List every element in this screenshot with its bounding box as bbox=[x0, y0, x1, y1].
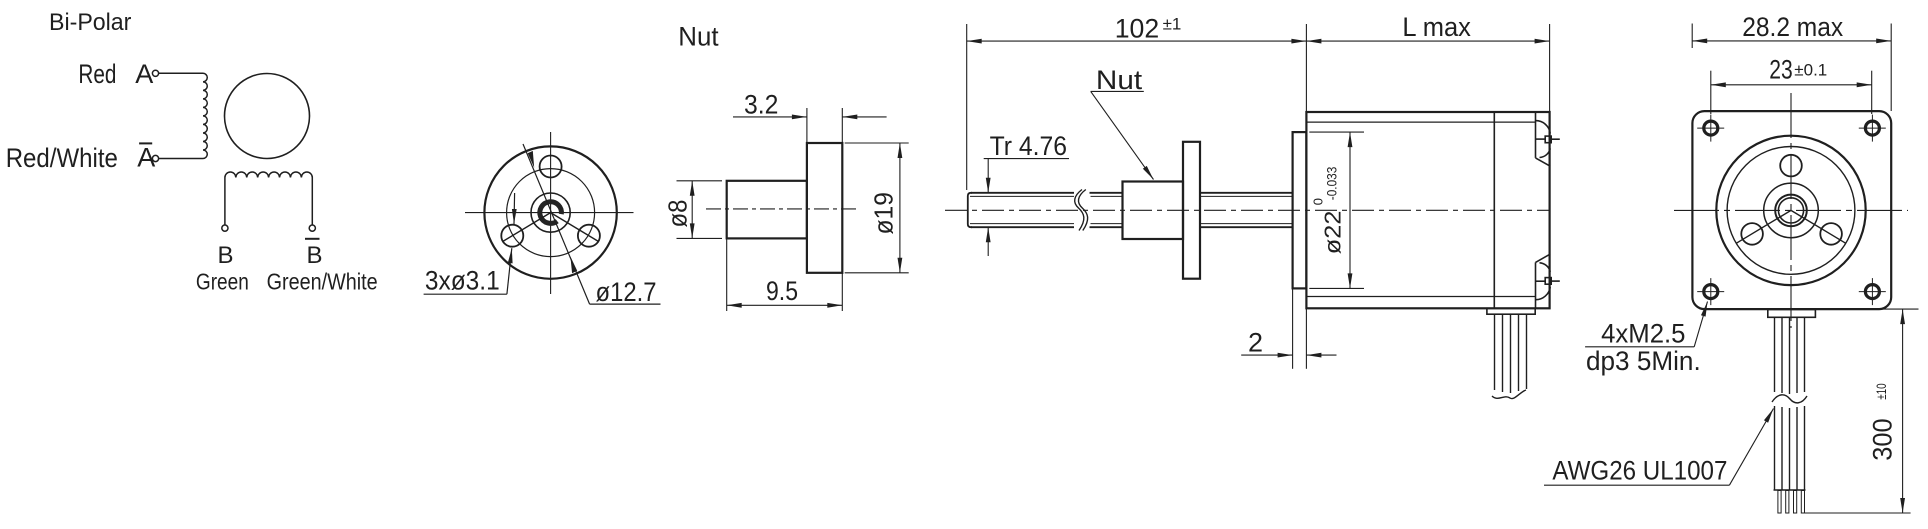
svg-text:L max: L max bbox=[1402, 12, 1471, 42]
pilot circle outer bbox=[1716, 136, 1865, 285]
lead screw right segment bbox=[1200, 192, 1293, 194]
svg-text:Bi-Polar: Bi-Polar bbox=[49, 9, 131, 36]
arrow on bolt circle lower bbox=[570, 257, 577, 274]
centerline horizontal bbox=[465, 212, 634, 214]
wire exit collar side view bbox=[1487, 308, 1535, 314]
dim 102 line bbox=[967, 40, 1307, 42]
rear tab bottom bbox=[1536, 254, 1560, 308]
nut body on screw bbox=[1123, 182, 1184, 240]
spoke lower-left front bbox=[1736, 210, 1791, 243]
dim 2 line right arrow bbox=[1306, 354, 1336, 356]
lead screw mid segment bbox=[1090, 192, 1123, 194]
svg-text:dp3 5Min.: dp3 5Min. bbox=[1586, 346, 1701, 376]
spoke to lower-right hole bbox=[551, 213, 599, 242]
svg-text:4xM2.5: 4xM2.5 bbox=[1601, 319, 1685, 349]
wire bundle break wave bbox=[1772, 395, 1807, 403]
terminal A bbox=[152, 70, 158, 76]
centerline vertical front view bbox=[1790, 93, 1792, 328]
centerline horizontal front view bbox=[1674, 209, 1908, 211]
svg-text:ø19: ø19 bbox=[871, 192, 899, 235]
svg-text:102: 102 bbox=[1115, 14, 1160, 44]
diameter line o12.7 bbox=[523, 144, 590, 304]
body internal vertical line bbox=[1493, 112, 1495, 308]
dim 9.5 extension right bbox=[841, 273, 843, 311]
dim 28.2 line bbox=[1692, 40, 1891, 42]
svg-text:Nut: Nut bbox=[678, 22, 719, 52]
coil B (horizontal winding) bbox=[225, 172, 312, 177]
svg-text:±0.1: ±0.1 bbox=[1794, 61, 1827, 80]
svg-text:9.5: 9.5 bbox=[766, 276, 798, 306]
dim o22 extension top bbox=[1309, 131, 1364, 133]
wire bundle front view lower bbox=[1775, 406, 1805, 490]
svg-text:Nut: Nut bbox=[1096, 65, 1143, 95]
terminal B bbox=[222, 225, 228, 231]
spoke to lower-left hole bbox=[503, 213, 551, 242]
dim 3.2 line right arrow bbox=[842, 116, 886, 118]
dim o8 line bbox=[691, 181, 693, 239]
corner hole crosshairs bbox=[1697, 115, 1886, 306]
dim 3.2 line left arrow bbox=[733, 116, 807, 118]
hub circle front bbox=[1764, 183, 1819, 238]
terminal B-bar bbox=[309, 225, 315, 231]
arrow on bolt circle upper bbox=[528, 151, 535, 168]
svg-text:3.2: 3.2 bbox=[744, 89, 778, 119]
svg-text:Tr 4.76: Tr 4.76 bbox=[990, 131, 1067, 161]
dim 23 extension right bbox=[1871, 71, 1873, 114]
leader line AWG bbox=[1729, 409, 1773, 486]
svg-text:3xø3.1: 3xø3.1 bbox=[425, 265, 500, 295]
svg-text:-0.033: -0.033 bbox=[1324, 167, 1340, 201]
leader underline AWG bbox=[1544, 484, 1729, 486]
dim o22 line bbox=[1349, 132, 1351, 288]
svg-text:ø12.7: ø12.7 bbox=[596, 277, 657, 307]
svg-text:Green: Green bbox=[196, 269, 249, 295]
dim o19 line bbox=[899, 143, 901, 273]
rear tab top bbox=[1536, 112, 1560, 166]
wire bundle front view upper bbox=[1775, 317, 1805, 394]
svg-text:A: A bbox=[135, 59, 153, 89]
dim L max extension bbox=[1549, 24, 1551, 112]
thread minor lines mid bbox=[1091, 195, 1123, 197]
svg-text:28.2 max: 28.2 max bbox=[1742, 12, 1843, 42]
dim 2 line left arrow bbox=[1241, 354, 1292, 356]
dim Tr arrow top bbox=[987, 159, 989, 193]
svg-text:2: 2 bbox=[1248, 328, 1263, 358]
hole top bbox=[540, 156, 562, 178]
label o22 with tolerance rotated bbox=[1311, 167, 1346, 255]
svg-text:ø22: ø22 bbox=[1320, 211, 1346, 255]
pilot circle inner bbox=[1727, 147, 1855, 275]
dim 300 extension top bbox=[1879, 308, 1919, 310]
terminal A-bar bbox=[152, 155, 158, 161]
leader underline Nut bbox=[1091, 90, 1144, 92]
stripped wire ends bbox=[1778, 491, 1805, 514]
svg-text:AWG26 UL1007: AWG26 UL1007 bbox=[1552, 456, 1727, 486]
svg-text:Green/White: Green/White bbox=[267, 269, 378, 295]
nut flange on screw bbox=[1183, 142, 1200, 279]
dim 28.2 extension left bbox=[1691, 24, 1693, 49]
dim 3.2 extension right bbox=[841, 108, 843, 143]
hole lower-left bbox=[501, 225, 523, 247]
hole lower-right front bbox=[1820, 223, 1842, 245]
thread minor lines right bbox=[1200, 195, 1293, 197]
body inner bottom line bbox=[1306, 296, 1535, 298]
thread bore circles front bbox=[1775, 195, 1807, 227]
motor body outline bbox=[1306, 112, 1549, 308]
dim o8 extension bottom bbox=[677, 237, 723, 239]
underline 3xo3.1 bbox=[424, 293, 507, 295]
thread bore bold ring bbox=[540, 202, 562, 224]
leader 3xo3.1 bbox=[507, 248, 512, 294]
extension above body left edge bbox=[1305, 24, 1307, 112]
svg-text:Red: Red bbox=[78, 59, 116, 89]
svg-text:±10: ±10 bbox=[1874, 383, 1889, 400]
svg-text:B: B bbox=[307, 242, 323, 269]
underline o12.7 bbox=[590, 303, 661, 305]
dim o8 extension top bbox=[677, 180, 723, 182]
centerline main bbox=[945, 209, 1550, 211]
svg-text:300: 300 bbox=[1868, 418, 1898, 460]
leader line 4xM2.5 bbox=[1694, 302, 1707, 347]
leader line Nut bbox=[1091, 91, 1154, 179]
nut outer circle bbox=[484, 146, 616, 278]
svg-text:±1: ±1 bbox=[1163, 15, 1182, 34]
mounting plate bbox=[1293, 132, 1307, 288]
thread minor lines left bbox=[970, 195, 1074, 197]
dim 23 line bbox=[1711, 84, 1872, 86]
wire B-bar down bbox=[311, 178, 313, 226]
dim 9.5 extension left bbox=[726, 238, 728, 311]
hole top front bbox=[1780, 155, 1802, 177]
wire bundle cut edge side view bbox=[1492, 390, 1526, 399]
dim 2 extension left bbox=[1292, 288, 1294, 368]
arrow above lower-left hole bbox=[513, 193, 516, 224]
lead screw left segment bbox=[968, 193, 1074, 227]
wire bundle bottom tick bbox=[1774, 489, 1806, 491]
coil A (vertical winding) bbox=[203, 73, 207, 158]
svg-text:23: 23 bbox=[1769, 54, 1793, 84]
centerline bbox=[706, 208, 860, 210]
wire B down bbox=[224, 178, 226, 226]
dim o19 extension top bbox=[845, 142, 909, 144]
nut flange rectangle bbox=[807, 143, 842, 273]
dim o19 extension bottom bbox=[845, 272, 909, 274]
svg-text:B: B bbox=[218, 242, 234, 269]
dim o22 extension bottom bbox=[1309, 287, 1364, 289]
dim Tr arrow bottom bbox=[987, 227, 989, 256]
wire A to coil bbox=[159, 72, 203, 74]
overline of B-bar bbox=[305, 238, 320, 240]
overline of A-bar bbox=[139, 142, 152, 144]
dim 300 extension bottom bbox=[1805, 512, 1911, 514]
wire bundle side view bbox=[1495, 314, 1527, 393]
hub circle bbox=[531, 193, 570, 232]
dim 2 extension right bbox=[1305, 308, 1307, 369]
nut boss rectangle bbox=[727, 181, 807, 239]
spoke lower-right front bbox=[1791, 210, 1846, 243]
corner hole TL bbox=[1704, 121, 1880, 299]
dim 28.2 extension right bbox=[1890, 24, 1892, 112]
square flange outline bbox=[1692, 111, 1891, 309]
svg-text:Red/White: Red/White bbox=[6, 143, 118, 173]
dim 3.2 extension left bbox=[806, 108, 808, 143]
centerline vertical bbox=[550, 132, 552, 294]
dim 102 extension left bbox=[966, 24, 968, 190]
bolt circle bbox=[507, 169, 595, 257]
leader underline 4xM2.5 bbox=[1585, 346, 1694, 348]
dim 23 extension left bbox=[1710, 71, 1712, 114]
leader underline Tr bbox=[984, 158, 1069, 160]
dim L max line bbox=[1306, 40, 1549, 42]
screw break squiggle bbox=[1075, 190, 1084, 231]
hole lower-left front bbox=[1741, 223, 1763, 245]
body inner top line bbox=[1306, 121, 1535, 123]
wire exit collar front view bbox=[1768, 310, 1816, 318]
dim 9.5 line bbox=[727, 304, 843, 306]
dim 300 line bbox=[1902, 309, 1904, 513]
wire A-bar to coil bbox=[159, 158, 203, 160]
hole lower-right bbox=[578, 225, 600, 247]
svg-text:ø8: ø8 bbox=[665, 200, 693, 228]
motor rotor circle bbox=[225, 74, 310, 159]
